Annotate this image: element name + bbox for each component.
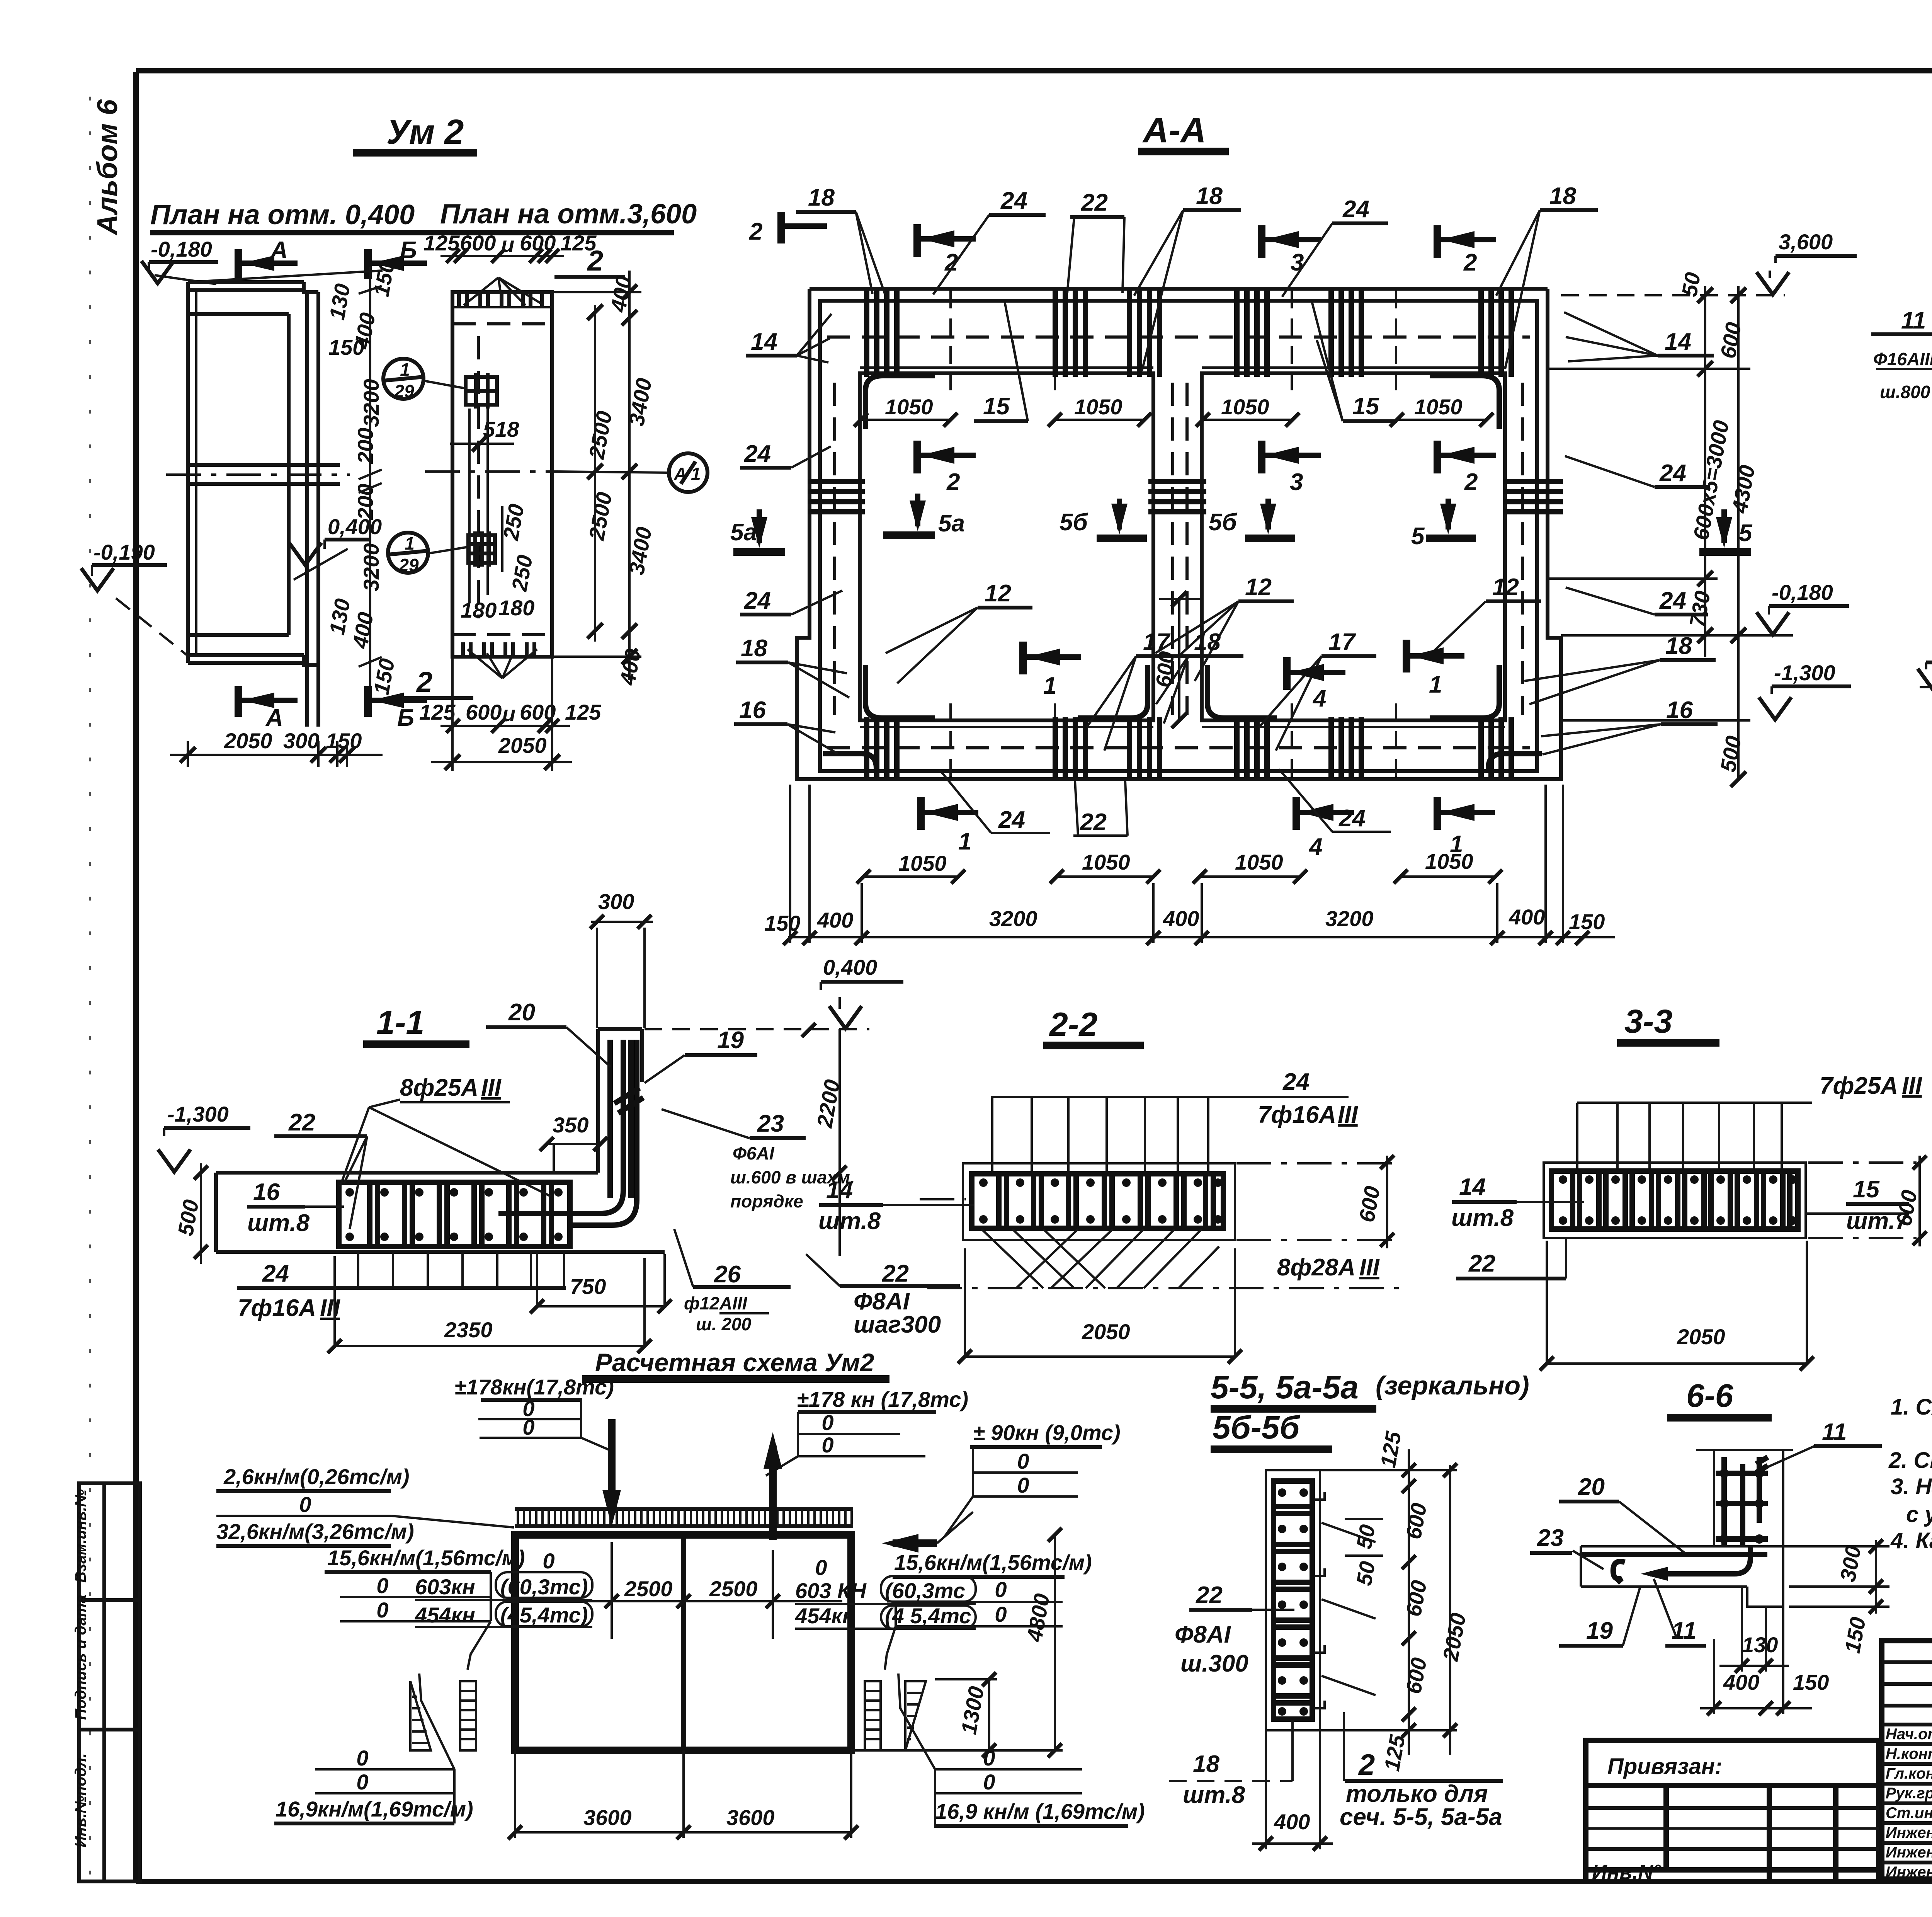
svg-text:ш.800: ш.800	[1880, 382, 1930, 402]
svg-text:0: 0	[1017, 1449, 1029, 1473]
svg-text:400: 400	[1274, 1810, 1310, 1834]
mesh square 2	[468, 531, 495, 567]
svg-text:с учетом коэффициента надежнос: с учетом коэффициента надежности по назн…	[1906, 1502, 1932, 1527]
bottom band	[188, 633, 289, 637]
svg-text:2050: 2050	[1677, 1325, 1725, 1349]
section marker A bottom	[235, 686, 242, 717]
svg-text:0: 0	[821, 1410, 833, 1435]
svg-text:3600: 3600	[726, 1805, 775, 1830]
left hatched strip	[460, 1681, 476, 1750]
dim 2200 right	[838, 1029, 841, 1256]
svg-text:29: 29	[398, 555, 419, 575]
svg-text:16: 16	[253, 1179, 280, 1205]
svg-text:454кн: 454кн	[415, 1603, 475, 1627]
svg-text:Ф8АI: Ф8АI	[1175, 1621, 1231, 1648]
svg-text:Ст.инж.: Ст.инж.	[1886, 1805, 1932, 1822]
svg-text:18: 18	[1665, 633, 1692, 659]
svg-text:0: 0	[356, 1770, 368, 1794]
svg-text:0: 0	[299, 1492, 311, 1517]
svg-text:200: 200	[353, 428, 378, 464]
svg-text:22: 22	[1468, 1250, 1495, 1277]
svg-text:24: 24	[1342, 196, 1369, 223]
svg-text:(4 5,4тс: (4 5,4тс	[885, 1604, 971, 1628]
svg-text:(зеркально): (зеркально)	[1376, 1371, 1529, 1400]
marker 1 cell1	[1019, 642, 1027, 674]
main box	[515, 1535, 851, 1750]
svg-text:19: 19	[717, 1027, 744, 1054]
svg-text:22: 22	[1080, 809, 1107, 836]
svg-text:3200: 3200	[989, 906, 1037, 931]
svg-text:2: 2	[1358, 1748, 1375, 1781]
marker 1 cell2	[1403, 640, 1410, 672]
svg-text:15: 15	[983, 393, 1010, 420]
svg-text:22: 22	[288, 1109, 315, 1136]
svg-text:1: 1	[958, 828, 971, 855]
svg-text:2350: 2350	[444, 1318, 493, 1342]
svg-text:Подпись и дата: Подпись и дата	[72, 1595, 89, 1720]
svg-text:5б: 5б	[1060, 509, 1088, 536]
svg-text:шт.8: шт.8	[818, 1208, 881, 1234]
svg-text:14: 14	[826, 1177, 853, 1204]
svg-text:порядке: порядке	[730, 1191, 803, 1211]
column cage	[1696, 1449, 1793, 1451]
concrete outline	[963, 1163, 1235, 1240]
svg-text:0: 0	[376, 1598, 388, 1622]
svg-text:1050: 1050	[1082, 850, 1130, 874]
cell 1	[860, 373, 1153, 720]
svg-text:11: 11	[1822, 1419, 1847, 1445]
svg-text:24: 24	[1000, 187, 1027, 214]
svg-text:16,9кн/м(1,69тс/м): 16,9кн/м(1,69тс/м)	[276, 1797, 473, 1821]
svg-text:0: 0	[983, 1746, 995, 1770]
svg-text:3-3: 3-3	[1624, 1003, 1672, 1040]
svg-text:4: 4	[1312, 685, 1326, 712]
left hatched wedge	[410, 1681, 431, 1750]
svg-text:15: 15	[1352, 393, 1379, 420]
svg-text:Расчетная схема Ум2: Расчетная схема Ум2	[595, 1348, 874, 1377]
svg-text:2: 2	[749, 218, 762, 245]
outer second line	[820, 301, 1537, 771]
svg-text:2: 2	[416, 666, 432, 698]
svg-text:0: 0	[543, 1549, 554, 1573]
svg-text:750: 750	[570, 1274, 606, 1299]
svg-text:130: 130	[1742, 1633, 1778, 1657]
svg-text:шаг300: шаг300	[854, 1311, 941, 1338]
svg-text:15,6кн/м(1,56тс/м): 15,6кн/м(1,56тс/м)	[894, 1550, 1092, 1575]
svg-text:Б: Б	[400, 237, 417, 264]
svg-text:2. Спецификацию смотрите на: 2. Спецификацию смотрите на листе 30.	[1888, 1448, 1932, 1473]
svg-text:11: 11	[1672, 1617, 1696, 1644]
circles 1/29	[383, 359, 466, 401]
mesh square 1	[466, 373, 497, 409]
marker 3 top	[1258, 225, 1265, 258]
small hooks right	[1314, 1492, 1325, 1708]
svg-text:Ум 2: Ум 2	[386, 113, 464, 152]
cage	[339, 1182, 570, 1246]
svg-text:ш.300: ш.300	[1180, 1650, 1248, 1677]
svg-text:0: 0	[995, 1577, 1007, 1602]
svg-text:-1,300: -1,300	[1774, 661, 1835, 685]
svg-text:18: 18	[741, 635, 767, 662]
svg-text:2050: 2050	[1082, 1319, 1130, 1344]
svg-text:125: 125	[423, 231, 460, 255]
svg-text:24: 24	[1282, 1069, 1310, 1095]
dim 4800	[1054, 1535, 1056, 1750]
svg-text:± 90кн (9,0тс): ± 90кн (9,0тс)	[973, 1420, 1121, 1445]
svg-text:180: 180	[498, 596, 534, 620]
plan body	[188, 280, 304, 284]
svg-text:(60,3тс: (60,3тс	[885, 1578, 965, 1603]
svg-text:20: 20	[1578, 1474, 1605, 1500]
svg-text:2500: 2500	[624, 1577, 673, 1601]
svg-text:-0,190: -0,190	[94, 540, 155, 564]
svg-text:18: 18	[808, 184, 835, 211]
outer contour	[797, 289, 1561, 779]
dashed lines	[452, 322, 552, 325]
marker 5a cell1	[915, 494, 920, 526]
svg-text:±178кн(17,8тс): ±178кн(17,8тс)	[454, 1375, 614, 1399]
svg-text:15: 15	[1853, 1176, 1880, 1203]
svg-text:24: 24	[998, 807, 1025, 833]
svg-text:0,400: 0,400	[823, 955, 877, 979]
svg-text:0: 0	[522, 1415, 534, 1439]
svg-text:3600: 3600	[583, 1805, 632, 1830]
signature table	[1882, 1660, 1932, 1664]
svg-text:2050: 2050	[224, 729, 272, 753]
svg-text:5: 5	[1739, 520, 1753, 546]
svg-text:0: 0	[995, 1602, 1007, 1626]
svg-text:1: 1	[1429, 671, 1442, 698]
right dims	[1408, 1449, 1410, 1755]
svg-text:16: 16	[1666, 697, 1693, 724]
svg-text:22: 22	[882, 1260, 909, 1287]
svg-text:2: 2	[1464, 469, 1478, 495]
svg-text:24: 24	[744, 587, 771, 614]
dim 1300	[988, 1679, 990, 1750]
right dim column plan0400	[369, 267, 371, 696]
svg-text:1050: 1050	[1221, 395, 1269, 419]
svg-text:III: III	[1359, 1254, 1380, 1281]
load arrows	[608, 1419, 616, 1513]
svg-text:1050: 1050	[1074, 395, 1122, 419]
svg-text:18: 18	[1193, 1751, 1219, 1777]
hanging bars	[992, 1097, 1208, 1175]
svg-text:7ф16А: 7ф16А	[1258, 1102, 1336, 1128]
svg-text:11: 11	[1901, 307, 1926, 334]
svg-text:7ф16А: 7ф16А	[238, 1295, 316, 1321]
member outline	[1266, 1470, 1320, 1730]
svg-text:Альбом 6: Альбом 6	[91, 99, 123, 236]
svg-text:1: 1	[1043, 672, 1056, 699]
top mesh ticks	[452, 306, 552, 308]
svg-text:Инженер: Инженер	[1886, 1824, 1932, 1841]
svg-text:50: 50	[1352, 1559, 1380, 1587]
corner bars	[866, 665, 935, 718]
svg-text:только для: только для	[1346, 1781, 1488, 1807]
svg-text:Ф16АIII: Ф16АIII	[1873, 349, 1932, 369]
svg-text:3: 3	[1291, 249, 1304, 276]
break mark	[614, 1088, 643, 1113]
svg-text:23: 23	[757, 1110, 784, 1137]
svg-text:Инв.N°: Инв.N°	[1592, 1861, 1662, 1884]
svg-text:350: 350	[553, 1113, 588, 1137]
svg-text:125: 125	[419, 700, 456, 724]
svg-text:5: 5	[1411, 523, 1425, 550]
svg-text:22: 22	[1196, 1582, 1223, 1609]
svg-text:150: 150	[1569, 909, 1605, 934]
section marker A top	[235, 249, 242, 279]
svg-text:22: 22	[1081, 189, 1108, 216]
svg-text:19: 19	[1586, 1617, 1613, 1644]
marker 2 cell1	[913, 441, 921, 473]
svg-text:2-2: 2-2	[1049, 1006, 1097, 1043]
svg-text:2: 2	[946, 469, 960, 495]
svg-text:300: 300	[598, 889, 634, 914]
svg-text:24: 24	[1338, 805, 1366, 832]
dashed cut traces	[949, 291, 952, 390]
svg-text:III: III	[481, 1074, 502, 1101]
svg-text:32,6кн/м(3,26тс/м): 32,6кн/м(3,26тс/м)	[216, 1519, 414, 1544]
dim 600 cell2	[1178, 597, 1180, 720]
plan rect	[452, 292, 552, 657]
svg-text:шт.8: шт.8	[1183, 1782, 1245, 1808]
svg-text:3: 3	[1290, 469, 1303, 495]
svg-text:5а: 5а	[938, 510, 965, 537]
concrete outline	[1544, 1163, 1806, 1238]
svg-text:-0,180: -0,180	[1772, 580, 1833, 604]
svg-text:А: А	[270, 237, 288, 264]
svg-text:5б-5б: 5б-5б	[1213, 1409, 1300, 1445]
svg-text:16,9 кн/м (1,69тс/м): 16,9 кн/м (1,69тс/м)	[935, 1799, 1145, 1823]
svg-text:400: 400	[1509, 905, 1545, 929]
svg-text:3200: 3200	[359, 543, 383, 591]
svg-text:5б: 5б	[1209, 509, 1237, 536]
svg-text:2500: 2500	[709, 1577, 758, 1601]
svg-text:Нач.отд.: Нач.отд.	[1886, 1726, 1932, 1743]
axis circle A/1	[669, 453, 707, 492]
marker 2 top right	[1434, 225, 1441, 258]
bottom markers	[917, 797, 925, 830]
svg-text:Б: Б	[397, 705, 414, 731]
svg-text:24: 24	[1659, 460, 1686, 487]
inner thin mesh lines	[860, 366, 1153, 369]
svg-text:Ф6АI: Ф6АI	[733, 1143, 775, 1163]
svg-text:III: III	[1902, 1073, 1922, 1099]
right dim column	[1704, 286, 1706, 657]
rebar groups side walls	[808, 482, 1563, 512]
svg-text:А: А	[265, 705, 283, 731]
svg-text:4: 4	[1308, 834, 1322, 860]
svg-text:17: 17	[1328, 629, 1356, 655]
svg-text:14: 14	[1665, 329, 1691, 355]
rebar groups bottom wall	[867, 717, 1511, 778]
svg-text:150: 150	[328, 335, 364, 359]
svg-text:Инженер: Инженер	[1886, 1844, 1932, 1861]
svg-text:400: 400	[1163, 906, 1199, 931]
marker 4 cell2	[1283, 657, 1291, 690]
section marker Б bottom	[364, 686, 372, 717]
svg-text:2: 2	[1463, 249, 1477, 276]
svg-text:2050: 2050	[498, 733, 547, 758]
cage	[972, 1174, 1223, 1228]
right dims 300/150	[1827, 1545, 1889, 1548]
svg-text:2: 2	[587, 245, 603, 277]
svg-text:26: 26	[714, 1261, 741, 1288]
svg-text:-1,300: -1,300	[167, 1102, 229, 1126]
cage	[1274, 1481, 1312, 1719]
svg-text:(45,4тс): (45,4тс)	[500, 1603, 588, 1627]
svg-text:0: 0	[376, 1573, 388, 1598]
svg-text:15,6кн/м(1,56тс/м): 15,6кн/м(1,56тс/м)	[327, 1546, 525, 1570]
svg-text:0: 0	[815, 1555, 827, 1580]
svg-text:12: 12	[985, 580, 1011, 607]
svg-text:300: 300	[283, 729, 319, 753]
title block outer	[1882, 1641, 1932, 1879]
svg-text:603 КН: 603 КН	[795, 1578, 867, 1603]
marker 2 cell2	[1434, 441, 1441, 473]
svg-text:24: 24	[1659, 587, 1686, 614]
svg-text:шт.8: шт.8	[1451, 1205, 1514, 1231]
svg-text:1. Схему расположения конструк: 1. Схему расположения конструктивных эле…	[1891, 1394, 1932, 1420]
svg-text:-0,180: -0,180	[151, 237, 212, 261]
svg-text:1-1: 1-1	[376, 1004, 424, 1041]
svg-text:24: 24	[262, 1260, 289, 1287]
svg-text:18: 18	[1194, 629, 1221, 655]
svg-text:А: А	[673, 464, 687, 484]
svg-text:Инженер: Инженер	[1886, 1864, 1932, 1881]
bottom mesh ticks	[463, 642, 534, 656]
svg-text:8ф25А: 8ф25А	[400, 1074, 478, 1101]
svg-text:3200: 3200	[1325, 906, 1374, 931]
svg-text:0: 0	[356, 1746, 368, 1770]
svg-text:3,600: 3,600	[1779, 230, 1833, 254]
svg-text:Ф8АI: Ф8АI	[854, 1288, 910, 1315]
pos23 hook	[1613, 1561, 1625, 1583]
svg-text:0: 0	[821, 1433, 833, 1457]
bars below slab	[358, 1252, 564, 1288]
right dims	[628, 271, 631, 680]
svg-text:Привязан:: Привязан:	[1607, 1754, 1722, 1779]
svg-text:(60,3тс): (60,3тс)	[500, 1575, 588, 1599]
svg-text:Инв.№подл.: Инв.№подл.	[72, 1753, 89, 1847]
right hatched strip	[865, 1681, 881, 1750]
svg-text:План на отм. 0,400: План на отм. 0,400	[150, 199, 415, 230]
svg-text:А-А: А-А	[1142, 111, 1206, 150]
svg-text:1050: 1050	[1414, 395, 1463, 419]
svg-text:150: 150	[1793, 1670, 1829, 1694]
svg-text:1050: 1050	[885, 395, 933, 419]
svg-text:0: 0	[983, 1770, 995, 1794]
svg-text:0: 0	[1017, 1473, 1029, 1497]
wall column	[598, 1029, 642, 1173]
left stamp boxes	[72, 1483, 140, 1881]
svg-text:Гл.констр: Гл.констр	[1886, 1765, 1932, 1782]
svg-text:454кн: 454кн	[795, 1604, 855, 1628]
svg-text:1: 1	[405, 533, 415, 553]
svg-text:1050: 1050	[898, 851, 947, 875]
svg-text:600: 600	[466, 700, 502, 724]
dash-dot level lines	[920, 1198, 966, 1200]
marker 3 cell2	[1258, 441, 1265, 473]
svg-text:16: 16	[739, 697, 766, 724]
svg-text:20: 20	[508, 999, 535, 1026]
svg-text:23: 23	[1537, 1525, 1564, 1551]
rebar groups top wall	[867, 291, 1511, 377]
hanging bars	[1577, 1103, 1782, 1173]
svg-text:3200: 3200	[359, 379, 383, 427]
svg-text:7ф25А: 7ф25А	[1820, 1073, 1898, 1099]
svg-text:ш. 200: ш. 200	[696, 1314, 752, 1334]
section marker Б top	[364, 249, 372, 279]
svg-text:14: 14	[1459, 1174, 1486, 1200]
svg-text:1: 1	[400, 359, 410, 380]
svg-text:400: 400	[817, 908, 853, 932]
middle wall band	[188, 463, 340, 467]
svg-text:12: 12	[1245, 574, 1272, 601]
svg-text:Рук.гр.: Рук.гр.	[1886, 1785, 1932, 1802]
svg-text:6-6: 6-6	[1686, 1377, 1734, 1414]
svg-text:125: 125	[565, 700, 601, 724]
svg-text:шт.8: шт.8	[247, 1210, 310, 1236]
slab	[216, 1173, 665, 1252]
dim 600	[1386, 1156, 1388, 1248]
svg-text:сеч. 5-5, 5а-5а: сеч. 5-5, 5а-5а	[1340, 1804, 1502, 1830]
svg-text:50: 50	[1352, 1523, 1380, 1551]
svg-text:ф12АIII: ф12АIII	[684, 1293, 748, 1313]
svg-text:1050: 1050	[1425, 849, 1473, 873]
svg-text:603кн: 603кн	[415, 1575, 475, 1599]
svg-text:III: III	[320, 1295, 340, 1321]
cell 2	[1202, 373, 1505, 720]
right hatched wedge	[905, 1681, 926, 1750]
svg-text:4. Каркасы поз.18 устанавливат: 4. Каркасы поз.18 устанавливать вилками …	[1890, 1528, 1932, 1553]
svg-text:12: 12	[1492, 574, 1519, 601]
slab lines	[1581, 1545, 1827, 1548]
svg-text:3. На расчетных схемах приведе: 3. На расчетных схемах приведены расчетн…	[1891, 1474, 1932, 1499]
bent bar	[1650, 1546, 1750, 1574]
svg-text:1050: 1050	[1235, 850, 1283, 874]
leader lines right	[1321, 1523, 1376, 1695]
dim 500 left	[200, 1163, 202, 1264]
svg-text:Н.контр.: Н.контр.	[1886, 1745, 1932, 1762]
marker 5b cell2	[1265, 499, 1271, 529]
hatch band on top	[515, 1509, 853, 1526]
svg-text:2,6кн/м(0,26тс/м): 2,6кн/м(0,26тс/м)	[223, 1464, 410, 1489]
svg-text:III: III	[1338, 1102, 1358, 1128]
svg-text:Взам.инв.№: Взам.инв.№	[72, 1489, 89, 1583]
svg-text:1: 1	[691, 464, 701, 484]
cage	[1551, 1171, 1798, 1229]
marker 2 top (cell1)	[913, 224, 921, 257]
svg-text:180: 180	[461, 598, 497, 622]
L-bar	[498, 1040, 623, 1214]
svg-text:24: 24	[744, 441, 771, 467]
svg-text:600: 600	[1151, 650, 1179, 688]
svg-text:400: 400	[1723, 1670, 1759, 1694]
privyazan box	[1586, 1740, 1879, 1884]
svg-text:50: 50	[1677, 271, 1705, 298]
svg-text:5-5, 5а-5а: 5-5, 5а-5а	[1211, 1369, 1359, 1405]
svg-text:План на отм.3,600: План на отм.3,600	[440, 199, 697, 230]
svg-text:±178 кн (17,8тс): ±178 кн (17,8тс)	[797, 1387, 968, 1411]
svg-text:29: 29	[394, 381, 414, 401]
svg-text:14: 14	[751, 329, 777, 355]
V hatch below cage	[981, 1229, 1219, 1288]
svg-text:18: 18	[1549, 183, 1576, 209]
svg-text:18: 18	[1196, 183, 1223, 209]
svg-text:8ф28А: 8ф28А	[1277, 1254, 1355, 1281]
